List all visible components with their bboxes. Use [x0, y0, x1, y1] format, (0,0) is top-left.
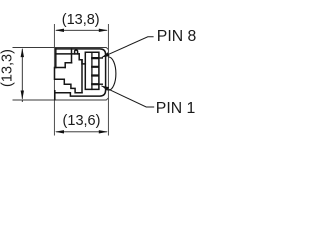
svg-text:PIN 1: PIN 1	[156, 100, 196, 117]
dimension line bottom (13,6)	[55, 130, 108, 133]
arrowhead left-top	[21, 48, 24, 57]
leader arrowhead PIN 1	[101, 86, 109, 91]
arrowhead left-bottom	[21, 91, 24, 100]
cable bulge half-ellipse on right	[109, 57, 116, 90]
contact teeth	[92, 58, 98, 84]
inner top wall line	[56, 53, 79, 55]
inner wall vertical	[81, 60, 83, 93]
connector body outline	[55, 49, 106, 100]
arrowhead top-left	[55, 29, 64, 32]
contact guide wall	[91, 52, 93, 89]
svg-text:(13,8): (13,8)	[62, 12, 100, 28]
svg-text:(13,3): (13,3)	[0, 49, 16, 87]
body left edge upper	[55, 49, 57, 68]
vline from top edge down	[71, 49, 73, 63]
svg-text:(13,6): (13,6)	[63, 113, 101, 129]
pin 8 stub	[99, 57, 102, 59]
dimension line left (13,3)	[21, 48, 24, 102]
dimension line top (13,8)	[55, 29, 108, 32]
extension line bottom horizontal with flange chamfer	[13, 98, 109, 100]
arrowhead bottom-right	[99, 130, 108, 133]
leader line PIN 8	[102, 37, 154, 58]
contact box	[85, 52, 99, 89]
extension line top horizontal with flange chamfer	[13, 48, 109, 50]
leader line PIN 1	[101, 86, 154, 107]
round-top column	[75, 50, 78, 54]
arrowhead top-right	[99, 29, 108, 32]
cascade into contact box	[79, 54, 85, 64]
extension line right vertical	[107, 24, 109, 136]
arrowhead bottom-left	[55, 130, 64, 133]
leader arrowhead PIN 8	[102, 52, 110, 57]
extension line left vertical	[53, 24, 55, 136]
latch tab notch (left protrusion)	[55, 68, 83, 93]
body outer path: top edge, rounded right corners, bottom step, left tab	[55, 49, 106, 100]
shelf to latch	[65, 63, 71, 68]
svg-text:PIN 8: PIN 8	[157, 28, 197, 45]
pin 1 stub	[99, 83, 102, 85]
